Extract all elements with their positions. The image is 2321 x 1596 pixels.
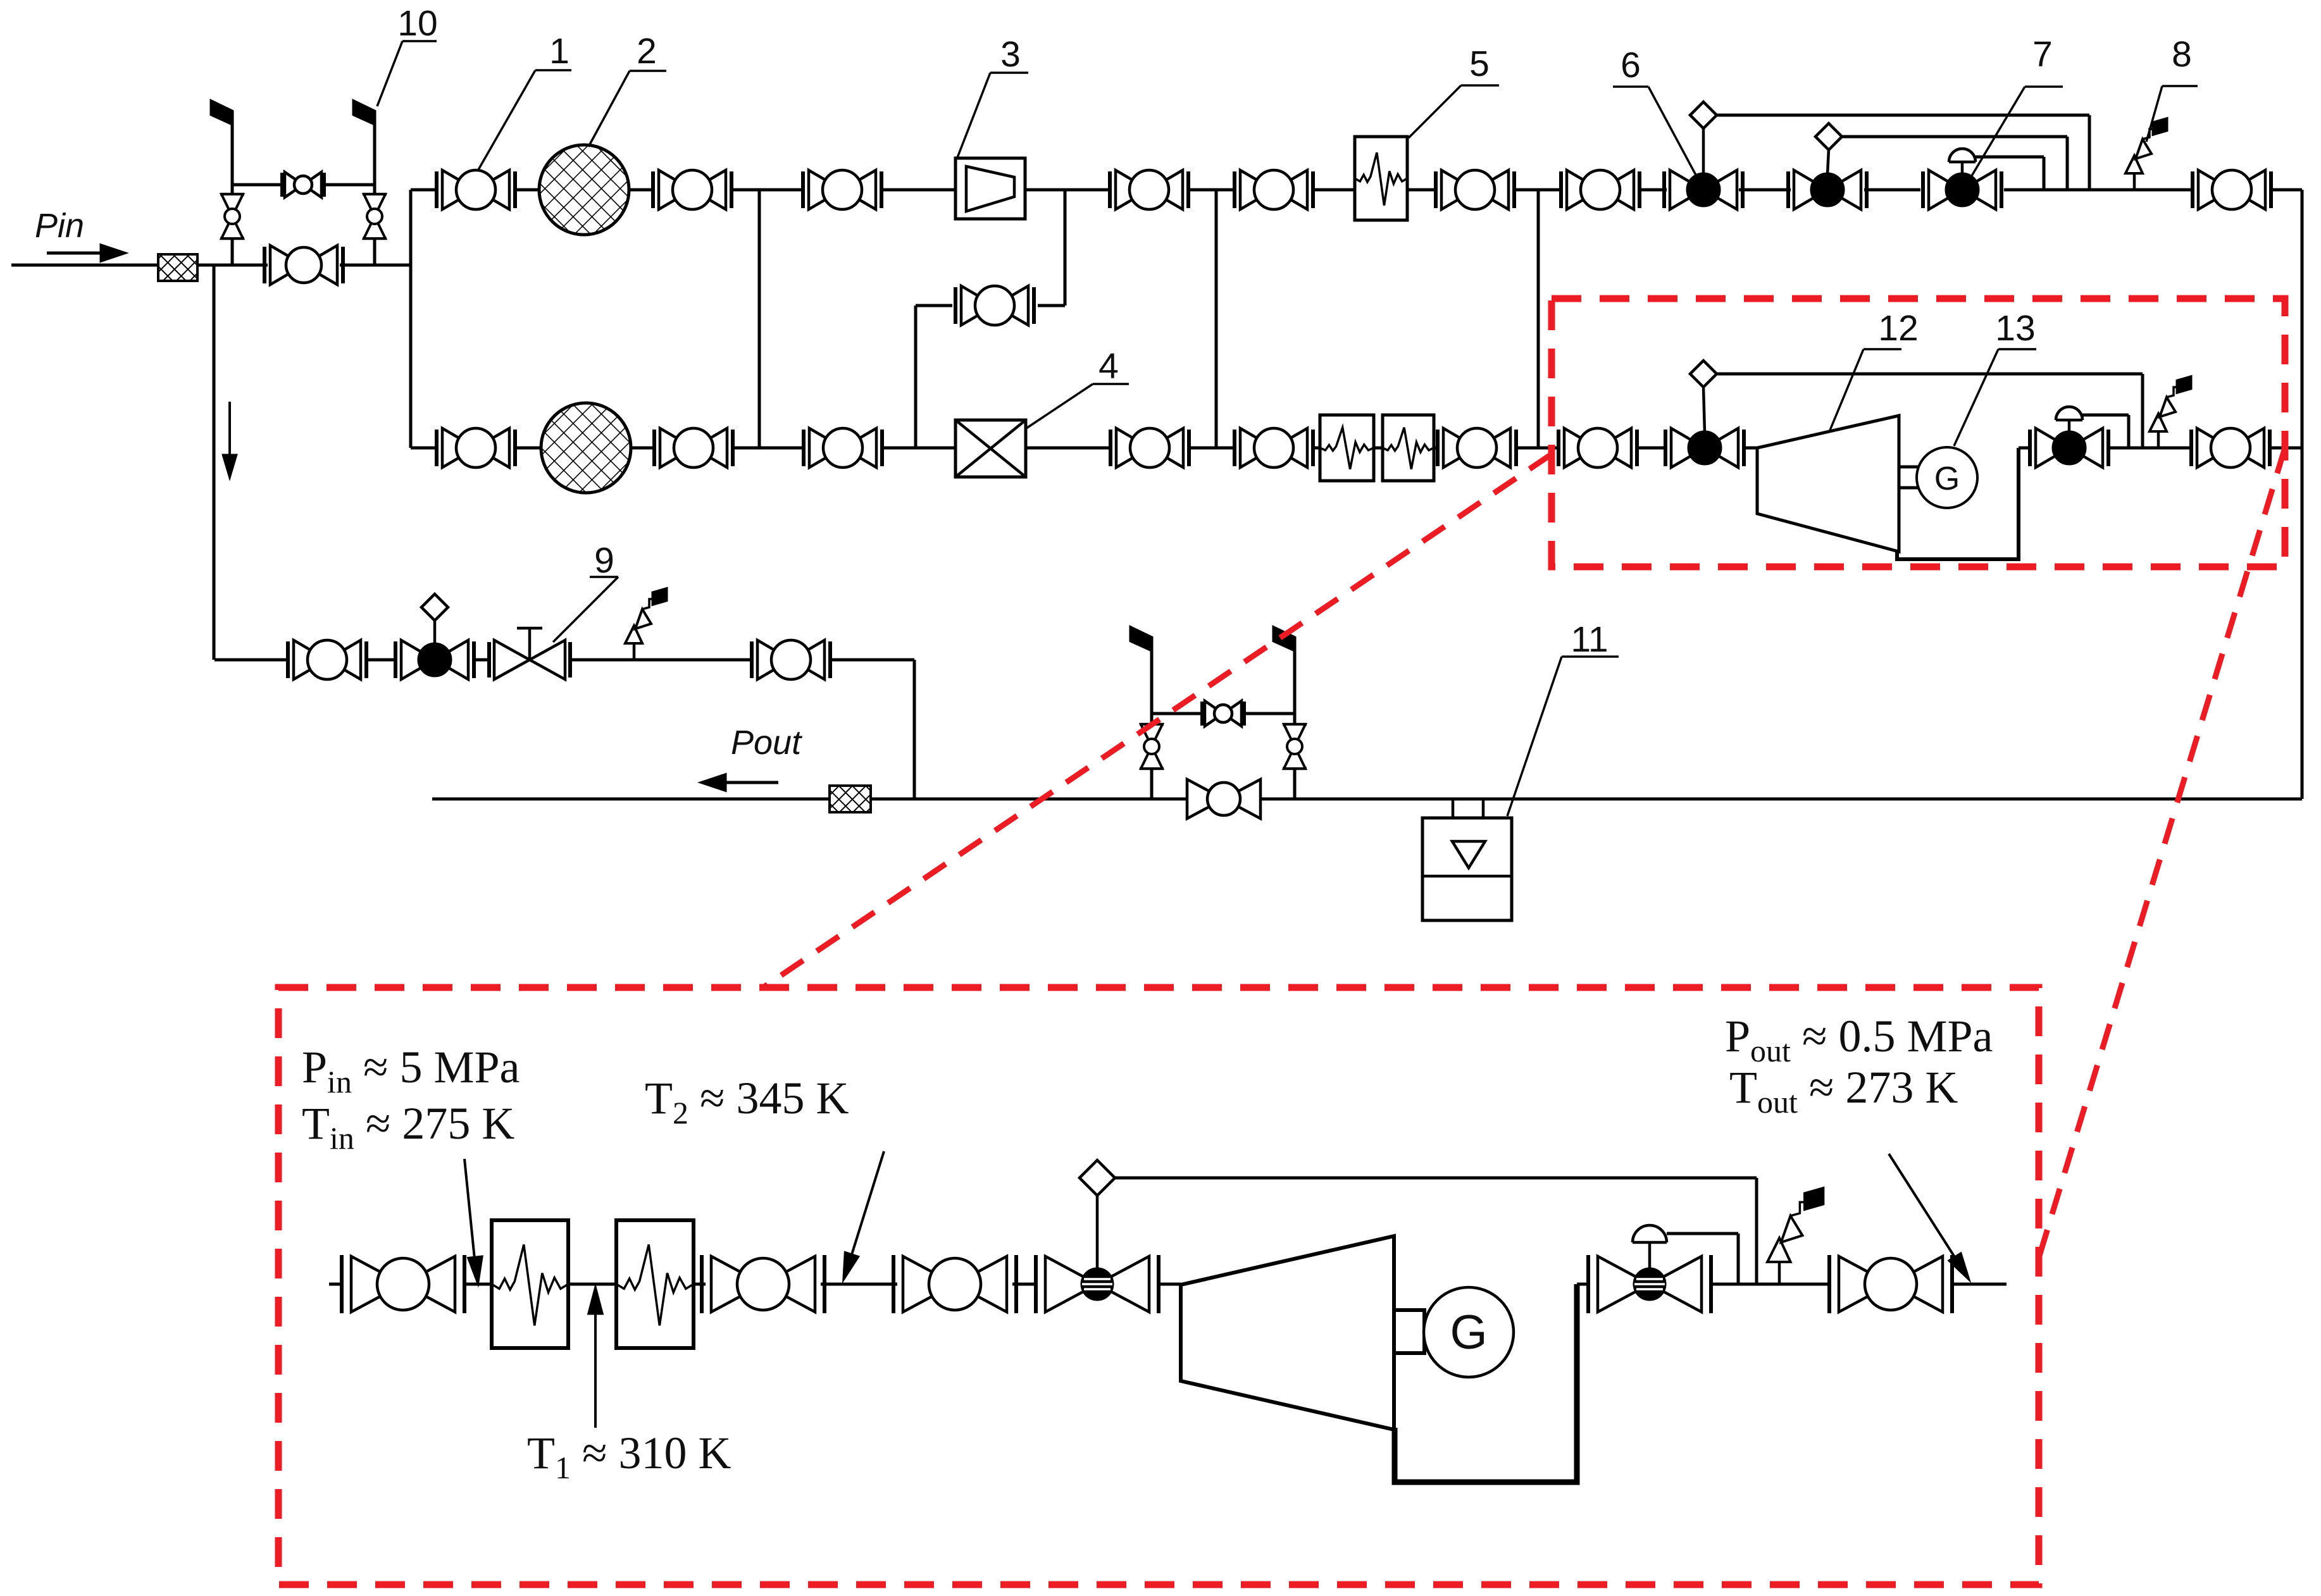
control valve 7 — [1923, 149, 2001, 209]
valve big D3 — [893, 1255, 1016, 1313]
relief valve expander small — [2150, 377, 2191, 448]
label 3 — [957, 34, 1028, 158]
valve bottom B1 — [437, 428, 515, 467]
wire expander segment a — [1637, 447, 1664, 450]
label 2 — [588, 31, 666, 147]
wire bypass3 horizontal a — [1038, 304, 1065, 307]
wire big segment f — [1012, 1283, 1036, 1286]
wire big segment i — [1711, 1283, 1829, 1286]
label 7 — [1968, 34, 2063, 182]
wire expander segment d0 — [2110, 447, 2190, 450]
svg-text:2: 2 — [637, 31, 657, 71]
label Tin detail — [302, 1098, 514, 1156]
signal wire outlet dome — [2082, 415, 2129, 448]
svg-text:3: 3 — [1000, 34, 1021, 75]
label Pout — [731, 724, 802, 762]
wire right downcomer — [2301, 190, 2304, 799]
signal wire from valve 6 — [1717, 115, 2089, 190]
wire output bridge — [1152, 712, 1295, 715]
wire inlet main line Pin — [11, 264, 268, 267]
label 6 — [1613, 45, 1698, 180]
wire bottom branch segment i — [1434, 447, 1436, 450]
wire bottom branch segment h — [1314, 447, 1320, 450]
signal wire big diamond — [1115, 1178, 1757, 1284]
valve output stub left small — [1140, 724, 1164, 769]
label Tout detail — [1729, 1062, 1958, 1120]
wire big segment d — [694, 1283, 706, 1286]
wire top branch segment a — [411, 189, 437, 192]
control valve big outlet — [1588, 1225, 1711, 1313]
signal wire big dome — [1667, 1234, 1738, 1284]
wire vent branch down — [213, 265, 216, 660]
wire top branch segment c — [629, 189, 652, 192]
tank nozzle wires — [1453, 799, 1483, 818]
regulating valve 9 — [489, 628, 570, 679]
valve top A3 — [803, 170, 881, 209]
valve vent left small — [220, 194, 244, 238]
heater 5 — [1355, 137, 1407, 220]
signal wire from valve 7 dome — [1976, 157, 2044, 190]
valve vent bridge small — [282, 172, 324, 197]
valve top A7 — [1561, 170, 1640, 209]
zoom callout dashed left — [763, 454, 1552, 987]
wire output bypass left stub — [1150, 650, 1154, 799]
wire line9 segment d — [570, 659, 750, 662]
wire bottom branch segment d — [734, 447, 802, 450]
label Pin detail — [302, 1042, 520, 1099]
wire bottom branch segment f — [1026, 447, 1109, 450]
flag output right — [1274, 628, 1295, 650]
label 9 — [553, 540, 618, 642]
valve 1 — [437, 170, 515, 209]
valve bottom B4 — [1111, 428, 1189, 467]
svg-text:9: 9 — [594, 540, 614, 581]
arrow T2 detail — [844, 1151, 884, 1278]
valve main inlet — [264, 245, 343, 285]
wire top branch segment i — [1407, 189, 1434, 192]
filter 2 — [539, 145, 629, 235]
svg-text:5: 5 — [1469, 44, 1490, 84]
wire manifold vertical — [409, 190, 413, 448]
wire bottom branch segment a — [411, 447, 437, 450]
wire big segment b — [464, 1283, 492, 1286]
valve bypass3 — [955, 286, 1034, 325]
wire top branch segment m — [1864, 189, 1920, 192]
valve big D2 — [702, 1255, 824, 1313]
wire bottom branch segment g — [1190, 447, 1233, 450]
valve top A5 — [1235, 170, 1313, 209]
wire tie junction 3 — [1537, 190, 1540, 448]
control valve big inlet — [1036, 1196, 1159, 1313]
heater bottom twin left — [1320, 415, 1374, 481]
instrument diamond of valve 6 — [1690, 102, 1717, 128]
turbo-expander 12 — [1757, 416, 1899, 552]
label 10 — [377, 3, 438, 106]
wire top branch segment f — [1025, 189, 1109, 192]
valve line9 C2 — [752, 640, 830, 679]
valve big D4 — [1829, 1255, 1952, 1313]
wire vent stub right — [373, 124, 376, 265]
valve top A6 — [1436, 170, 1514, 209]
svg-text:12: 12 — [1878, 308, 1918, 349]
valve output stub right small — [1283, 724, 1307, 769]
label T1 detail — [527, 1428, 731, 1485]
flag vent right — [354, 101, 375, 124]
instrument diamond of mid valve — [1815, 123, 1842, 150]
valve vent right small — [363, 194, 387, 238]
label 4 — [1026, 346, 1129, 428]
wire expander segment d — [2271, 447, 2302, 450]
wire expander outlet big — [1395, 1284, 1577, 1482]
instrument diamond line9 — [421, 594, 448, 621]
wire top branch segment e — [883, 189, 955, 192]
heater big H1 — [492, 1220, 568, 1348]
valve big D1 — [342, 1255, 464, 1313]
arrow Pout detail — [1889, 1154, 1968, 1278]
valve expander outlet E2 — [2191, 428, 2270, 467]
flag vent left — [211, 101, 232, 124]
wire vent stub left — [231, 124, 234, 265]
wire tie junction 1 — [758, 190, 761, 448]
heater bottom twin right — [1383, 415, 1434, 481]
valve expander inlet E1 — [1559, 428, 1637, 467]
wire bypass3 vertical — [914, 306, 918, 448]
wire top branch segment b — [515, 189, 540, 192]
wire top branch segment h — [1314, 189, 1355, 192]
wire line9 downcomer — [913, 660, 916, 799]
wire big segment h — [1577, 1283, 1588, 1286]
filter bottom — [541, 403, 631, 493]
generator 13 — [1917, 447, 1977, 508]
wire bottom branch segment j — [1517, 447, 1559, 450]
control valve expander — [1665, 387, 1744, 467]
label 1 — [478, 31, 571, 171]
wire bottom branch segment e — [883, 447, 955, 450]
heater big H2 — [616, 1220, 694, 1348]
zoom box small — [1552, 299, 2285, 567]
control valve mid — [1788, 149, 1867, 209]
wire inlet to manifold — [340, 264, 411, 267]
zoom box large — [278, 987, 2039, 1585]
wire top branch segment k — [1641, 189, 1667, 192]
relief valve line9 — [625, 589, 666, 660]
generator coupling small — [1899, 467, 1919, 488]
label 11 — [1507, 619, 1619, 816]
svg-text:G: G — [1450, 1306, 1487, 1359]
zoom callout dashed right — [2036, 448, 2285, 1268]
wire bypass3 horizontal b — [916, 304, 952, 307]
valve top A2 — [653, 170, 731, 209]
svg-text:10: 10 — [397, 3, 437, 44]
svg-text:Pout: Pout — [731, 724, 802, 762]
wire big segment g — [1159, 1283, 1181, 1286]
odorizer tank 11 — [1422, 818, 1512, 920]
flow arrow output — [702, 775, 778, 790]
label 13 — [1954, 308, 2036, 446]
wire big segment c — [568, 1283, 616, 1286]
wire line9 segment e — [831, 659, 914, 662]
flow arrow down — [224, 402, 236, 476]
relief valve 8 — [2125, 119, 2167, 190]
label Pout detail — [1725, 1011, 1993, 1068]
generator big — [1424, 1287, 1514, 1377]
svg-text:Pin: Pin — [35, 207, 84, 245]
label 5 — [1409, 44, 1499, 138]
valve top A4 — [1110, 170, 1188, 209]
svg-text:1: 1 — [549, 31, 569, 71]
valve bottom B3 — [804, 428, 882, 467]
wire top branch segment n — [2004, 189, 2191, 192]
wire line9 segment c — [475, 659, 489, 662]
valve bottom B5 — [1235, 428, 1313, 467]
flag output left — [1131, 628, 1152, 650]
arrow T1 detail — [589, 1289, 602, 1428]
instrument diamond big — [1080, 1160, 1115, 1196]
wire top branch segment j — [1515, 189, 1560, 192]
valve line9 C1 — [288, 640, 366, 679]
wire top branch segment o — [2272, 189, 2302, 192]
flow computer 3 — [955, 158, 1025, 219]
wire output line — [432, 798, 2302, 801]
control valve expander outlet — [2030, 407, 2108, 467]
wire big segment e — [821, 1283, 897, 1286]
valve bottom B2 — [654, 428, 733, 467]
svg-text:4: 4 — [1098, 346, 1119, 387]
valve top A8 — [2193, 170, 2271, 209]
valve bottom B6 — [1438, 428, 1516, 467]
arrow Pin detail — [464, 1159, 482, 1282]
label T2 detail — [645, 1073, 849, 1130]
wire top branch segment g — [1190, 189, 1233, 192]
wire big segment a — [329, 1283, 343, 1286]
wire bottom branch segment c — [631, 447, 653, 450]
wire between twin heaters — [1374, 447, 1383, 450]
label 8 — [2146, 34, 2198, 142]
flow meter FQ2 — [830, 786, 871, 812]
valve main output — [1187, 779, 1260, 819]
valve output bridge small — [1202, 701, 1244, 726]
signal wire expander valve — [1717, 374, 2143, 448]
svg-text:G: G — [1934, 461, 1960, 497]
flow meter FQ1 — [158, 254, 197, 281]
generator coupling big — [1394, 1310, 1424, 1353]
control valve 6 — [1664, 128, 1743, 209]
wire vent bridge — [232, 183, 375, 187]
label Pin — [35, 207, 84, 245]
flow arrow inlet — [47, 245, 124, 261]
svg-text:13: 13 — [1995, 308, 2035, 349]
svg-text:7: 7 — [2032, 34, 2053, 75]
instrument diamond expander valve — [1690, 361, 1717, 387]
relief valve big — [1767, 1189, 1823, 1284]
wire top branch segment d — [733, 189, 802, 192]
regulator 4 — [955, 420, 1026, 477]
svg-text:8: 8 — [2172, 34, 2192, 75]
label 12 — [1830, 308, 1919, 430]
wire line9 segment b — [368, 659, 394, 662]
signal wire from mid valve — [1841, 137, 2067, 190]
wire tie junction 2 — [1215, 190, 1218, 448]
wire bypass3 down — [1064, 190, 1067, 306]
wire big segment j — [1952, 1283, 2007, 1286]
wire expander segment b — [1745, 447, 1757, 450]
wire output bypass right stub — [1293, 650, 1297, 799]
wire bottom branch segment b — [515, 447, 542, 450]
wire expander segment c — [2019, 447, 2029, 450]
wire top branch segment l — [1739, 189, 1791, 192]
turbo-expander big — [1181, 1236, 1394, 1430]
wire expander outlet small — [1897, 448, 2019, 559]
control valve line9 — [395, 621, 474, 679]
svg-text:11: 11 — [1571, 619, 1608, 660]
wire line9 segment a — [215, 659, 287, 662]
svg-text:6: 6 — [1621, 45, 1641, 85]
